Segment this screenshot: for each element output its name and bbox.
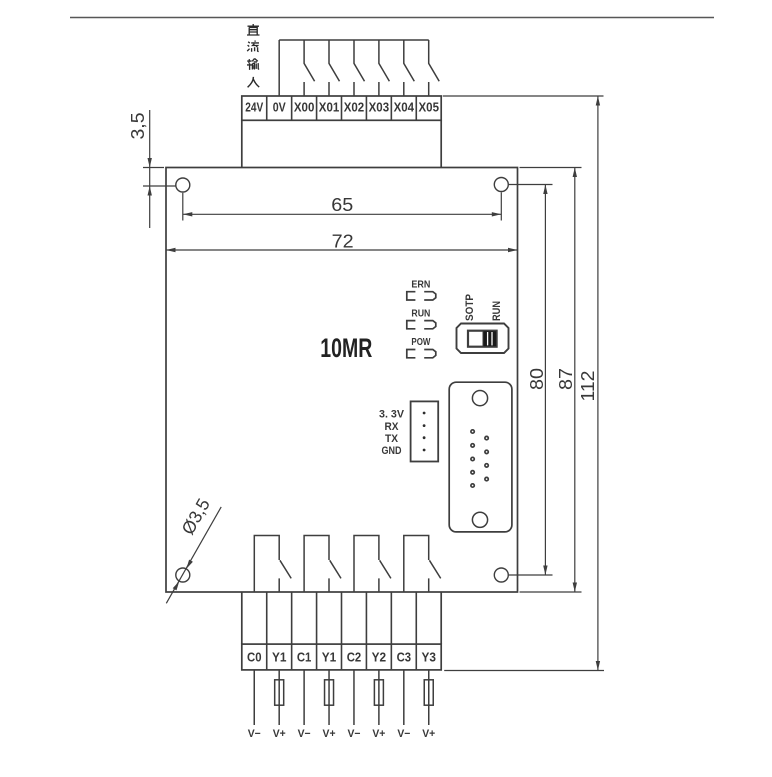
relay output switch 2 — [304, 536, 341, 593]
svg-text:TX: TX — [385, 433, 399, 445]
svg-text:80: 80 — [527, 368, 547, 390]
svg-text:C2: C2 — [347, 651, 362, 665]
svg-text:72: 72 — [332, 232, 354, 252]
input common bus wire — [279, 39, 429, 41]
DB9 pin left col y=445.4 — [471, 444, 474, 447]
mounting hole top-right — [494, 178, 508, 192]
svg-text:10MR: 10MR — [320, 333, 372, 363]
fuse symbol — [374, 680, 383, 705]
svg-text:V−: V− — [248, 728, 261, 740]
svg-text:V−: V− — [298, 728, 311, 740]
dim 3,5 arrow down — [148, 158, 152, 168]
mounting hole bottom-right — [494, 568, 508, 582]
DB9 serial connector outline — [449, 382, 512, 532]
output wire C0 — [253, 670, 255, 725]
svg-text:V+: V+ — [422, 728, 435, 740]
pin header pin at y=437.7 — [423, 436, 426, 439]
svg-text:87: 87 — [556, 368, 576, 390]
svg-text:C1: C1 — [297, 651, 312, 665]
dim 3,5 arrow up — [148, 186, 152, 196]
dim 3,5 dimension line — [149, 110, 151, 228]
DB9 screw hole top — [472, 391, 487, 406]
DB9 pin left col y=485.5 — [471, 484, 474, 487]
input switch above X02 — [354, 40, 365, 96]
svg-text:0V: 0V — [273, 100, 286, 115]
top terminal label row — [242, 96, 441, 120]
svg-text:GND: GND — [382, 445, 402, 457]
mounting hole bottom-left — [176, 568, 190, 582]
pin header pin at y=425.6 — [423, 424, 426, 427]
bottom terminal label row — [242, 644, 441, 670]
mounting hole top-left — [176, 178, 190, 192]
svg-text:ERN: ERN — [411, 278, 430, 290]
input switch above X01 — [329, 40, 340, 96]
output wire Y1 — [328, 670, 330, 725]
leader line for hole diameter — [166, 507, 221, 603]
DB9 pin right col y=465.4 — [485, 464, 488, 467]
dim 3,5 extension tick at body top — [143, 167, 164, 169]
slide switch knob (black with grips) — [483, 331, 497, 347]
Chinese caption 输 (char 3) — [247, 59, 259, 70]
svg-text:3. 3V: 3. 3V — [379, 408, 405, 420]
slide switch slot — [468, 331, 497, 347]
svg-text:X02: X02 — [344, 100, 365, 115]
fuse symbol — [325, 680, 334, 705]
ext line body top right — [520, 167, 582, 169]
ext line bottom terminal bottom right — [444, 670, 604, 672]
svg-text:Y3: Y3 — [421, 651, 436, 665]
DB9 screw hole bottom — [472, 512, 487, 527]
svg-text:RUN: RUN — [411, 307, 430, 319]
top terminal housing — [242, 120, 441, 167]
LED icon RUN — [407, 321, 416, 329]
DB9 pin left col y=472.3 — [471, 471, 474, 474]
svg-text:3,5: 3,5 — [128, 113, 148, 140]
ext line bottom-right hole center — [509, 574, 553, 576]
input switch above X05 — [429, 40, 440, 96]
svg-text:X01: X01 — [319, 100, 340, 115]
ext line terminal top right — [443, 95, 604, 97]
fuse symbol — [275, 680, 284, 705]
svg-text:Y1: Y1 — [272, 651, 287, 665]
DB9 pin right col y=438.1 — [485, 436, 488, 439]
PLC main body outline 72x87 — [166, 168, 518, 593]
output wire Y3 — [428, 670, 430, 725]
0V wire — [278, 40, 280, 96]
output wire C2 — [353, 670, 355, 725]
dim 72 dimension line — [166, 249, 518, 251]
bottom terminal neck — [242, 592, 441, 644]
output wire C1 — [303, 670, 305, 725]
svg-text:SOTP: SOTP — [464, 294, 476, 321]
dim 112 dimension line — [597, 96, 599, 671]
dim 65 left extension line — [182, 193, 184, 221]
svg-text:Y2: Y2 — [372, 651, 387, 665]
dim 80 dimension line — [544, 185, 546, 576]
leader arrow upper — [186, 560, 193, 569]
svg-text:X05: X05 — [418, 100, 439, 115]
relay output switch 3 — [354, 536, 391, 593]
dim 65 right extension line — [500, 192, 502, 220]
svg-text:112: 112 — [578, 371, 598, 402]
DB9 pin left col y=431.5 — [471, 430, 474, 433]
dim 65 dimension line — [183, 213, 502, 215]
pin header pin at y=450 — [423, 449, 426, 452]
LED icon ERN — [407, 292, 416, 300]
LED icon POW — [407, 350, 416, 358]
svg-text:65: 65 — [331, 195, 353, 215]
svg-text:24V: 24V — [245, 100, 263, 115]
input switch above X04 — [404, 40, 415, 96]
relay output switch 4 — [404, 536, 441, 593]
svg-text:RUN: RUN — [491, 301, 503, 321]
svg-text:V−: V− — [347, 728, 360, 740]
svg-text:C3: C3 — [397, 651, 412, 665]
output wire C3 — [403, 670, 405, 725]
svg-text:C0: C0 — [247, 651, 262, 665]
DB9 pin right col y=479.1 — [485, 477, 488, 480]
dim 3,5 extension tick at hole center — [143, 185, 176, 187]
input switch above X00 — [304, 40, 315, 96]
Chinese caption 直 (DC input, char 1) — [247, 24, 260, 35]
ext line body bottom right — [520, 591, 582, 593]
relay output switch 1 — [254, 536, 291, 593]
Chinese caption 入 (char 4) — [248, 77, 260, 87]
pin header outline — [411, 401, 439, 461]
output wire Y2 — [378, 670, 380, 725]
svg-text:RX: RX — [385, 421, 400, 433]
svg-text:X03: X03 — [369, 100, 390, 115]
svg-text:POW: POW — [411, 336, 430, 348]
svg-text:V+: V+ — [323, 728, 336, 740]
output wire Y1 — [278, 670, 280, 725]
slide switch body — [457, 324, 509, 354]
svg-text:V−: V− — [397, 728, 410, 740]
input switch above X03 — [379, 40, 390, 96]
svg-text:Y1: Y1 — [322, 651, 337, 665]
svg-text:V+: V+ — [372, 728, 385, 740]
leader arrow lower — [173, 581, 180, 590]
pin header pin at y=413 — [423, 412, 426, 415]
dim 87 dimension line — [574, 168, 576, 593]
Chinese caption 流 (char 2) — [247, 41, 259, 52]
svg-text:V+: V+ — [273, 728, 286, 740]
DB9 pin right col y=451.9 — [485, 450, 488, 453]
svg-text:X00: X00 — [294, 100, 315, 115]
DB9 pin left col y=459.0 — [471, 457, 474, 460]
drawing frame top border line — [70, 17, 714, 19]
svg-text:X04: X04 — [394, 100, 415, 115]
fuse symbol — [424, 680, 433, 705]
ext line top-right hole center — [509, 184, 553, 186]
